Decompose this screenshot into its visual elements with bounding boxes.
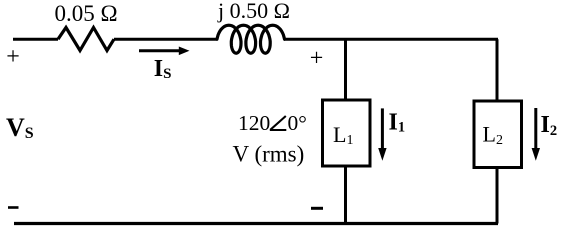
inductor L (j 0.50 ohm) (217, 25, 285, 53)
wire L1 to bottom (344, 166, 347, 224)
wire: inductor to right corner (284, 38, 498, 41)
svg-text:+: + (6, 44, 20, 70)
wire: top left segment (13, 38, 58, 41)
wire: between resistor and inductor (114, 38, 217, 41)
wire right corner down to L2 (496, 39, 499, 101)
svg-text:VS: VS (6, 113, 34, 142)
svg-text:120: 120 (238, 111, 270, 135)
current arrow I1 (381, 108, 384, 150)
current arrow Is (139, 49, 181, 52)
resistor R (0.05 ohm) (58, 28, 114, 51)
wire L2 to bottom (496, 168, 499, 224)
svg-text:0°: 0° (288, 111, 307, 135)
svg-text:V (rms): V (rms) (233, 141, 305, 166)
minus terminal left (8, 206, 19, 209)
svg-text:L1: L1 (333, 122, 353, 148)
svg-text:I1: I1 (389, 110, 406, 136)
load box L2 (474, 101, 522, 168)
current arrow I2 (534, 108, 537, 150)
wire: bottom return (14, 222, 498, 225)
angle symbol (270, 116, 287, 130)
svg-text:j 0.50 Ω: j 0.50 Ω (217, 0, 290, 23)
svg-text:IS: IS (154, 56, 172, 82)
svg-text:+: + (310, 46, 324, 72)
svg-text:I2: I2 (541, 112, 558, 139)
node junction wire down to L1 (344, 39, 347, 100)
minus node mid (311, 207, 323, 210)
load box L1 (323, 100, 371, 166)
svg-text:0.05 Ω: 0.05 Ω (54, 1, 117, 26)
svg-text:L2: L2 (483, 121, 503, 148)
